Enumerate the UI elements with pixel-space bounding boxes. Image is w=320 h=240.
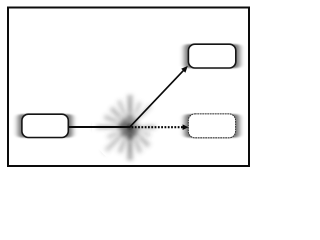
arrowhead to C [183,124,189,130]
fade the ray tips [92,89,168,165]
arrowhead to B [181,66,188,73]
node B: top-right box [188,44,235,68]
dotted wire: junction to C [132,126,184,128]
node C: bottom-right box shadow [185,114,240,138]
wire: junction to B (diagonal) [130,70,184,127]
node A: bottom-left box shadow [18,114,73,138]
starburst glow at wire junction [94,94,156,162]
node B: top-right box shadow [184,44,240,68]
wire: A to junction [69,126,131,128]
border frame [8,8,249,167]
node C: bottom-right box (dashed) [188,114,235,138]
node A: bottom-left box [22,114,68,137]
